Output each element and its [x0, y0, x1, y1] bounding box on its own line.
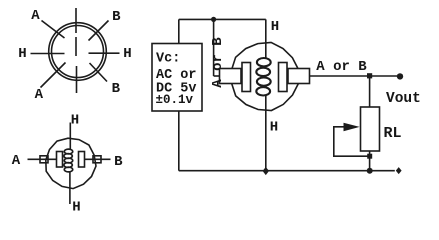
- S1 center dash: [75, 37, 77, 56]
- junction diamond heater bottom: [263, 167, 269, 175]
- svg-text:Vout: Vout: [386, 91, 421, 107]
- S2 heater lead top H: [69, 123, 71, 150]
- svg-text:A: A: [35, 87, 44, 103]
- RL wiper arm wire: [334, 127, 370, 156]
- svg-text:A: A: [31, 8, 40, 24]
- wire A-or-B vertical drop: [213, 19, 215, 76]
- S1 lead ray SW (pin A): [41, 63, 66, 88]
- svg-text:±0.1v: ±0.1v: [156, 93, 194, 107]
- svg-text:H: H: [271, 19, 279, 35]
- svg-text:H: H: [18, 46, 26, 62]
- svg-text:Vc:: Vc:: [156, 52, 180, 67]
- svg-text:H: H: [270, 120, 278, 136]
- S1 lead ray SE (pin B): [90, 63, 108, 82]
- wire bottom rail: [179, 170, 395, 172]
- S2 left electrode plate: [57, 152, 63, 168]
- wire heater bottom H to bottom rail: [265, 95, 267, 171]
- wire RL bottom: [369, 151, 371, 171]
- voltage source box Vc: [152, 44, 202, 112]
- S2 left pin: [40, 156, 48, 163]
- U1 left pin block: [220, 69, 242, 84]
- svg-text:H: H: [123, 46, 131, 62]
- sensor top-view symbol S1 inner circle: [52, 26, 104, 78]
- RL wiper arrowhead: [344, 123, 360, 132]
- wire sensor output to Vout: [310, 75, 398, 77]
- resistor RL body: [361, 107, 380, 151]
- S1 lead ray E (pin H): [89, 52, 120, 54]
- node square at wiper tee: [367, 154, 372, 159]
- wire RL top: [369, 76, 371, 107]
- S1 lead ray NW (pin A): [42, 21, 65, 39]
- junction dot RL bottom: [367, 168, 373, 174]
- wire heater top drop H: [265, 19, 267, 58]
- svg-text:B: B: [112, 81, 121, 97]
- sensor top-view symbol S1 outer circle: [49, 23, 107, 81]
- wire box bottom stub: [178, 111, 180, 171]
- svg-text:B: B: [112, 9, 121, 25]
- U1 right pin block: [288, 69, 310, 84]
- node square at output tee: [367, 73, 372, 78]
- junction dot top rail: [211, 17, 216, 22]
- terminal diamond bottom right: [396, 167, 402, 174]
- wire box top stub: [178, 19, 180, 43]
- S1 lead ray N: [75, 8, 77, 33]
- wire A-or-B to sensor pin: [214, 75, 220, 77]
- S1 lead ray S: [76, 66, 78, 93]
- U1 left electrode plate: [242, 63, 251, 92]
- S2 heater coil: [64, 149, 73, 172]
- svg-text:A or B: A or B: [316, 59, 367, 75]
- svg-text:H: H: [71, 113, 79, 129]
- terminal dot Vout: [397, 73, 403, 79]
- S2 heater lead bottom H: [69, 171, 71, 204]
- sensor side-view symbol S2 circle: [46, 138, 96, 188]
- svg-text:A or B: A or B: [210, 37, 226, 88]
- S2 electrode lead A (left wire): [28, 158, 57, 160]
- svg-text:RL: RL: [384, 125, 402, 142]
- S2 right pin: [93, 156, 101, 163]
- U1 heater coil: [256, 58, 270, 96]
- svg-text:H: H: [72, 200, 80, 216]
- S2 right electrode plate: [79, 152, 85, 168]
- S2 electrode lead B (right wire): [85, 158, 111, 160]
- U1 right electrode plate: [279, 63, 288, 92]
- S1 lead ray W (pin H): [31, 53, 65, 55]
- svg-text:A: A: [12, 153, 21, 169]
- S1 lead ray NE (pin B): [89, 21, 109, 41]
- wire top rail: [179, 18, 266, 20]
- gas sensor U1 body circle: [232, 42, 299, 110]
- svg-text:B: B: [114, 154, 123, 170]
